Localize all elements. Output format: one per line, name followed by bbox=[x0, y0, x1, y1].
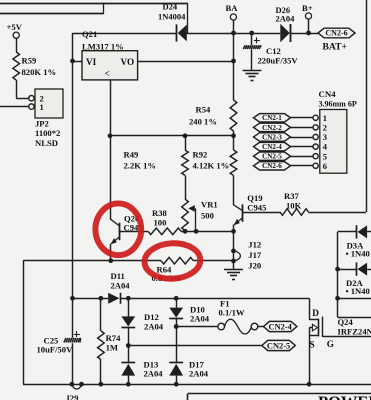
node BA junction bbox=[231, 31, 236, 36]
label R92 bbox=[193, 149, 230, 170]
node VI junction bbox=[70, 59, 75, 64]
wire emitter node down bbox=[233, 231, 235, 261]
port CN2-1 bbox=[254, 114, 291, 123]
svg-text:C945: C945 bbox=[247, 203, 266, 213]
label R74 bbox=[106, 333, 122, 352]
port CN2-6 bbox=[254, 162, 291, 171]
label R49 bbox=[124, 149, 156, 170]
svg-text:Q24: Q24 bbox=[338, 317, 354, 327]
CN4 pin 2 number bbox=[323, 123, 327, 133]
wire Q24 gate line bbox=[323, 336, 371, 338]
wire CN2-2 to CN4 pin 2 bbox=[291, 127, 314, 129]
svg-text:R37: R37 bbox=[284, 191, 300, 201]
label D11 bbox=[111, 271, 131, 290]
CN4 pin 1 circle bbox=[313, 115, 318, 120]
svg-text:R49: R49 bbox=[124, 149, 139, 159]
transistor Q20 emitter bbox=[111, 237, 120, 245]
node D13 bottom bbox=[126, 382, 131, 387]
label J29 bbox=[66, 393, 79, 400]
node VO-BA junction bbox=[231, 59, 236, 64]
svg-text:500: 500 bbox=[201, 210, 214, 220]
wire Q19 base to R37 bbox=[242, 212, 280, 214]
JP2 pin2 circle bbox=[29, 96, 34, 101]
svg-text:2A04: 2A04 bbox=[144, 321, 164, 331]
svg-text:VI: VI bbox=[86, 57, 97, 67]
CN4 pin 2 circle bbox=[313, 125, 318, 130]
wire D2A row bbox=[338, 269, 356, 271]
wire D3A anode stub bbox=[367, 231, 371, 233]
resistor R59 bbox=[13, 52, 20, 80]
node x72 row298 bbox=[70, 296, 75, 301]
transistor Q20 base bar bbox=[119, 223, 121, 241]
svg-text:R59: R59 bbox=[22, 56, 37, 66]
jumper J17 arc bbox=[234, 251, 241, 261]
node ADJ junction bbox=[108, 133, 113, 138]
label R59 value bbox=[22, 56, 57, 78]
diode D24 bbox=[177, 24, 187, 41]
wire R49 top lead bbox=[185, 136, 187, 150]
diode D17 bbox=[169, 363, 183, 376]
svg-text:CN2-4: CN2-4 bbox=[269, 322, 293, 331]
wire CN2-5 to CN4 pin 5 bbox=[291, 156, 314, 158]
CN4 pin 5 circle bbox=[313, 154, 318, 159]
wire R92 to Q19 collector bbox=[233, 175, 235, 205]
wire D2A anode stub bbox=[367, 269, 371, 271]
wire D26 cathode to B+ bbox=[291, 33, 318, 35]
wire CN2-4 to CN4 pin 4 bbox=[291, 146, 314, 148]
svg-text:NLSD: NLSD bbox=[35, 138, 58, 148]
svg-text:4.12K 1%: 4.12K 1% bbox=[193, 161, 230, 171]
capacitor C12 plus sign bbox=[254, 37, 260, 43]
title block border bbox=[188, 394, 371, 400]
wire D13 bottom lead bbox=[128, 376, 130, 385]
VR1 wiper arrow bbox=[188, 205, 195, 231]
wire F1 row left bbox=[176, 326, 218, 328]
svg-text:IRFZ24N: IRFZ24N bbox=[338, 327, 371, 337]
wire R74 bottom lead bbox=[100, 360, 102, 385]
label Q21 bbox=[82, 29, 97, 39]
wire VO output bbox=[138, 61, 234, 63]
svg-text:CN4: CN4 bbox=[319, 89, 337, 99]
wire gate net right bbox=[338, 298, 371, 300]
label D12 bbox=[144, 312, 164, 331]
svg-text:6: 6 bbox=[323, 161, 327, 171]
label D10 bbox=[190, 305, 210, 324]
diode D13 bbox=[121, 363, 135, 376]
mosfet Q24 channel bar bbox=[318, 319, 320, 337]
wire row 135 bbox=[110, 135, 234, 137]
wire CN2-1 to CN4 pin 1 bbox=[291, 117, 314, 119]
label C12 bbox=[258, 46, 299, 66]
svg-text:2A04: 2A04 bbox=[111, 280, 131, 290]
svg-text:CN2-4: CN2-4 bbox=[262, 143, 282, 151]
wire R38 to node bbox=[181, 231, 234, 233]
svg-text:J17: J17 bbox=[248, 250, 262, 260]
wire D3A corner vertical bbox=[337, 232, 339, 317]
wire C25 lower lead bbox=[72, 343, 74, 384]
jumper J29 arc bbox=[72, 384, 82, 389]
svg-text:CN2-5: CN2-5 bbox=[262, 153, 282, 161]
terminal +5V bbox=[13, 32, 19, 38]
jumper J29 right node bbox=[79, 382, 84, 387]
wire BA column upper bbox=[233, 33, 235, 61]
svg-text:POWER: POWER bbox=[318, 393, 371, 400]
wire D10 top lead bbox=[176, 298, 178, 307]
ground under C12 bbox=[243, 71, 262, 81]
svg-text:2.2K 1%: 2.2K 1% bbox=[124, 161, 156, 171]
node J12 bbox=[231, 249, 236, 254]
label D13 bbox=[144, 360, 164, 379]
svg-text:1: 1 bbox=[40, 102, 44, 112]
wire R92 top lead bbox=[233, 136, 235, 150]
node D10 top bbox=[174, 296, 179, 301]
svg-text:J29: J29 bbox=[66, 393, 79, 400]
wire BA stub bbox=[233, 20, 235, 33]
svg-text:R54: R54 bbox=[196, 104, 212, 114]
svg-text:J20: J20 bbox=[248, 261, 261, 271]
wire BA column to R54 bbox=[233, 61, 235, 100]
wire CN2-6 to CN4 pin 6 bbox=[291, 165, 314, 167]
label BA bbox=[226, 3, 239, 13]
svg-text:S: S bbox=[310, 340, 315, 350]
resistor R74 bbox=[98, 331, 105, 360]
port CN2-6 BAT+ bbox=[318, 28, 355, 38]
mosfet Q24 body arrow bbox=[309, 324, 317, 331]
node CN2-5 branch bbox=[126, 343, 131, 348]
potentiometer VR1 bbox=[182, 199, 189, 231]
capacitor C12 lead bbox=[251, 33, 253, 45]
resistor R92 bbox=[230, 150, 237, 175]
CN4 pin 6 number bbox=[323, 161, 327, 171]
label VR1 bbox=[201, 199, 218, 220]
node C12 junction bbox=[249, 31, 254, 36]
port CN2-5 bbox=[262, 340, 296, 350]
resistor R49 bbox=[182, 150, 189, 175]
resistor R38 bbox=[148, 228, 181, 235]
wire row298 corner to drain bbox=[309, 298, 311, 320]
wire R59 to JP2 pin2 bbox=[16, 80, 29, 99]
wire R64 row right bbox=[193, 260, 233, 262]
svg-text:1N4004: 1N4004 bbox=[158, 11, 186, 21]
wire right vertical from top bbox=[366, 0, 368, 212]
wire R74 top lead bbox=[100, 298, 102, 331]
mosfet Q24 source stub bbox=[309, 335, 318, 337]
wire Q24 source down bbox=[309, 328, 311, 385]
node F1 branch bbox=[174, 324, 179, 329]
resistor R54 bbox=[230, 100, 237, 131]
wire Q20 base to R38 bbox=[120, 231, 148, 233]
svg-text:10K: 10K bbox=[286, 200, 302, 210]
ground under J20 bbox=[224, 270, 243, 280]
resistor R64 bbox=[161, 257, 193, 264]
svg-text:2A04: 2A04 bbox=[276, 14, 296, 24]
label Q20 bbox=[124, 213, 143, 232]
wire D10 to D17 bbox=[176, 319, 178, 364]
svg-text:JP2: JP2 bbox=[35, 118, 49, 128]
label Q24 G bbox=[327, 339, 334, 349]
wire B+ stub bbox=[308, 19, 310, 33]
svg-text:D24: D24 bbox=[163, 2, 178, 12]
wire left edge to JP2 pin1 bbox=[0, 106, 29, 108]
label D24 bbox=[158, 2, 186, 22]
wire R49 to VR1 bbox=[185, 175, 187, 199]
label Q24 S bbox=[310, 340, 315, 350]
mosfet Q24 drain stub bbox=[309, 319, 318, 321]
wire Q19 emitter down bbox=[233, 225, 235, 232]
wire collector Q20 bbox=[110, 136, 112, 219]
svg-text:100: 100 bbox=[154, 217, 167, 227]
jumper J29 left node bbox=[70, 382, 75, 387]
capacitor C12 lower lead bbox=[251, 49, 253, 70]
svg-text:BAT+: BAT+ bbox=[323, 42, 347, 53]
svg-text:3: 3 bbox=[323, 132, 327, 142]
svg-text:4: 4 bbox=[323, 142, 328, 152]
connector CN4 box bbox=[320, 110, 347, 174]
label D2A bbox=[346, 278, 370, 296]
svg-text:LM317 1%: LM317 1% bbox=[82, 41, 124, 51]
diode D11 bbox=[108, 293, 120, 304]
label 3.96mm 6P bbox=[319, 100, 357, 109]
node Q20 emitter junction bbox=[108, 258, 113, 263]
label C25 bbox=[37, 335, 74, 354]
node J20 bbox=[231, 259, 236, 264]
svg-text:• 1N40: • 1N40 bbox=[346, 286, 370, 296]
node R74 top bbox=[99, 296, 104, 301]
CN4 pin 5 number bbox=[323, 151, 327, 161]
wire D12 to D13 bbox=[128, 327, 130, 363]
svg-text:VO: VO bbox=[121, 57, 135, 67]
svg-text:CN2-6: CN2-6 bbox=[262, 162, 282, 170]
wire VI input bbox=[73, 61, 83, 63]
wire row298 mid bbox=[120, 298, 309, 300]
transistor Q19 collector lead bbox=[234, 205, 243, 211]
label Q19 bbox=[247, 193, 266, 212]
capacitor C25 plate bbox=[64, 338, 81, 343]
wire D24 cathode side bbox=[73, 33, 177, 35]
terminal B+ bbox=[305, 13, 311, 19]
node gate net junction bbox=[335, 296, 340, 301]
svg-text:R92: R92 bbox=[193, 149, 208, 159]
node Q19 emitter row junction bbox=[231, 229, 236, 234]
CN4 pin 3 number bbox=[323, 132, 327, 142]
label Q24 D bbox=[312, 308, 319, 318]
CN4 pin 1 number bbox=[323, 113, 327, 123]
wire Q20 emitter down bbox=[110, 244, 112, 261]
svg-text:B+: B+ bbox=[302, 3, 313, 13]
label BAT+ bbox=[323, 42, 347, 53]
label LM317 1% bbox=[82, 41, 124, 51]
label R64 bbox=[152, 264, 183, 283]
svg-text:3.96mm 6P: 3.96mm 6P bbox=[319, 100, 357, 109]
svg-text:1M: 1M bbox=[106, 342, 118, 352]
svg-text:CN2-1: CN2-1 bbox=[262, 114, 282, 122]
svg-text:2A04: 2A04 bbox=[190, 314, 210, 324]
fuse F1 element bbox=[225, 319, 252, 334]
annotation red circle R64 bbox=[144, 242, 202, 280]
labels J12 J17 J20 bbox=[248, 240, 262, 271]
wire D17 bottom lead bbox=[176, 376, 178, 385]
wire CN2-3 to CN4 pin 3 bbox=[291, 137, 314, 139]
JP2 pin1 circle bbox=[29, 104, 34, 109]
port CN2-4 bbox=[254, 142, 291, 151]
connector JP2 bbox=[35, 89, 63, 118]
svg-text:D: D bbox=[312, 308, 319, 318]
svg-text:1100*2: 1100*2 bbox=[35, 128, 60, 138]
wire D3A row bbox=[338, 231, 356, 233]
label D17 bbox=[189, 360, 209, 379]
diode D3A bbox=[357, 225, 368, 238]
diode D2A bbox=[357, 262, 368, 275]
node Q24 source bottom bbox=[307, 382, 312, 387]
label +5V bbox=[7, 22, 23, 32]
node R49 top junction bbox=[183, 133, 188, 138]
svg-text:CN2-2: CN2-2 bbox=[262, 124, 282, 132]
node D17 bottom bbox=[174, 382, 179, 387]
wire R64 row left bbox=[23, 260, 161, 262]
wire gate net lower right bbox=[338, 317, 371, 319]
transistor Q19 emitter bbox=[234, 218, 242, 225]
wire top rail 1 bbox=[0, 3, 188, 5]
transistor Q19 base bar bbox=[242, 204, 244, 221]
wire top rail 2 bbox=[0, 13, 104, 15]
svg-text:240 1%: 240 1% bbox=[189, 116, 217, 126]
wire D12 top lead bbox=[128, 298, 130, 316]
wire ADJ bbox=[110, 80, 112, 136]
CN4 pin 3 circle bbox=[313, 134, 318, 139]
title POWER bbox=[318, 393, 371, 400]
CN4 pin 4 circle bbox=[313, 144, 318, 149]
svg-text:<: < bbox=[105, 69, 110, 79]
CN4 pin 6 circle bbox=[313, 163, 318, 168]
wire +rail vertical x72 bbox=[72, 33, 74, 298]
node VR1 bottom bbox=[183, 229, 188, 234]
svg-text:R38: R38 bbox=[152, 208, 168, 218]
label R37 bbox=[284, 191, 302, 211]
LM317 pin names bbox=[86, 57, 134, 79]
wire left vertical to R64 row bbox=[23, 261, 25, 385]
wire bottom rail bbox=[23, 384, 371, 386]
wire R54 to row bbox=[233, 131, 235, 136]
node D12 top bbox=[126, 296, 131, 301]
svg-text:CN2-6: CN2-6 bbox=[325, 29, 347, 38]
label R38 bbox=[152, 208, 168, 228]
svg-text:VR1: VR1 bbox=[201, 199, 218, 209]
svg-text:G: G bbox=[327, 339, 334, 349]
wire +5V to R59 bbox=[16, 38, 18, 52]
label R54 bbox=[189, 104, 217, 126]
label F1 bbox=[219, 299, 245, 318]
svg-text:C12: C12 bbox=[266, 46, 281, 56]
node R92 top junction bbox=[231, 133, 236, 138]
diode D12 bbox=[121, 316, 135, 327]
wire top rail 1 drop to D24 anode bbox=[187, 3, 189, 33]
transistor Q20 collector lead bbox=[110, 219, 120, 226]
label Q24 bbox=[338, 317, 371, 337]
mosfet Q24 gate bar bbox=[322, 317, 324, 338]
fuse F1 right pad bbox=[251, 323, 258, 330]
svg-text:CN2-5: CN2-5 bbox=[267, 341, 290, 350]
node B+ junction bbox=[306, 31, 311, 36]
label JP2 bbox=[35, 118, 60, 148]
label B+ bbox=[302, 3, 313, 13]
resistor R37 bbox=[280, 209, 309, 216]
label D3A bbox=[346, 241, 370, 259]
JP2 pin numbers bbox=[40, 93, 44, 112]
wire BA to C12 bbox=[234, 33, 252, 35]
node VR1 wiper bottom bbox=[194, 229, 199, 234]
svg-text:10uF/50V: 10uF/50V bbox=[37, 344, 74, 354]
port CN2-5 bbox=[254, 152, 291, 161]
annotation red circle Q20 bbox=[95, 203, 141, 255]
node R74 bottom bbox=[99, 382, 104, 387]
CN4 pin 4 number bbox=[323, 142, 328, 152]
label CN4 bbox=[319, 89, 337, 99]
svg-text:2A04: 2A04 bbox=[189, 369, 209, 379]
label D26 bbox=[276, 5, 296, 24]
svg-text:5: 5 bbox=[323, 151, 327, 161]
wire C12 to D26 anode bbox=[252, 33, 281, 35]
wire to ground J20 bbox=[233, 261, 235, 270]
wire top rail 2 riser bbox=[103, 3, 105, 14]
diode D26 bbox=[280, 24, 290, 43]
svg-text:2: 2 bbox=[323, 123, 327, 133]
port CN2-3 bbox=[254, 133, 291, 142]
svg-text:BA: BA bbox=[226, 3, 239, 13]
port CN2-4 bbox=[263, 321, 297, 331]
terminal BA bbox=[230, 14, 236, 20]
wire D24 anode to BA bbox=[187, 33, 234, 35]
svg-text:+5V: +5V bbox=[7, 22, 23, 32]
wire CN2-5 row bbox=[128, 345, 261, 347]
svg-text:1: 1 bbox=[323, 113, 327, 123]
svg-text:820K 1%: 820K 1% bbox=[22, 67, 57, 77]
fuse F1 left pad bbox=[218, 323, 225, 330]
diode D10 bbox=[169, 308, 183, 319]
node D2A junction bbox=[335, 267, 340, 272]
port CN2-2 bbox=[254, 123, 291, 132]
svg-text:2A04: 2A04 bbox=[144, 369, 164, 379]
wire row298 left bbox=[73, 298, 109, 300]
wire R37 to right riser bbox=[309, 212, 367, 214]
svg-text:CN2-3: CN2-3 bbox=[262, 133, 282, 141]
regulator U Q21 LM317 box bbox=[82, 51, 138, 80]
wire x72 to C25 bbox=[72, 298, 74, 338]
svg-text:J12: J12 bbox=[248, 240, 261, 250]
svg-text:• 1N40: • 1N40 bbox=[346, 249, 370, 259]
wire F1 to CN2-4 bbox=[258, 326, 264, 328]
capacitor C25 plus sign bbox=[74, 331, 80, 337]
capacitor C12 plate bbox=[243, 45, 261, 49]
svg-text:0.1/1W: 0.1/1W bbox=[219, 308, 245, 318]
svg-text:220uF/35V: 220uF/35V bbox=[258, 56, 299, 66]
